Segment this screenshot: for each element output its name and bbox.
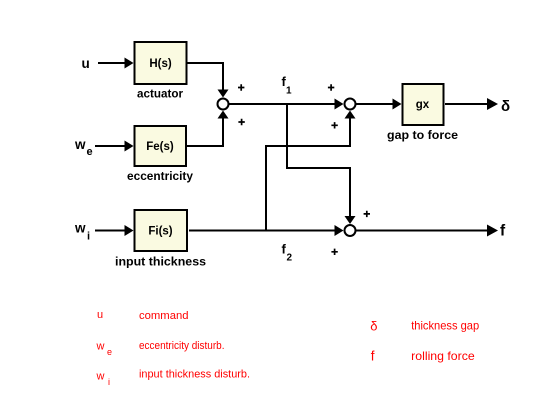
svg-text:w: w — [74, 137, 86, 152]
svg-text:δ: δ — [370, 319, 377, 334]
svg-text:eccentricity: eccentricity — [127, 171, 194, 183]
svg-text:2: 2 — [287, 253, 293, 264]
svg-text:u: u — [97, 309, 103, 321]
svg-text:gap to force: gap to force — [387, 130, 458, 142]
svg-text:i: i — [87, 231, 90, 243]
svg-text:i: i — [108, 377, 110, 387]
svg-text:command: command — [139, 310, 189, 322]
svg-text:δ: δ — [501, 98, 510, 115]
svg-text:eccentricity disturb.: eccentricity disturb. — [139, 340, 225, 352]
svg-text:1: 1 — [286, 86, 292, 97]
svg-text:w: w — [96, 341, 105, 353]
svg-text:e: e — [87, 146, 93, 158]
svg-text:thickness gap: thickness gap — [411, 319, 479, 333]
svg-text:H(s): H(s) — [149, 58, 172, 70]
svg-text:actuator: actuator — [137, 89, 184, 101]
svg-text:f: f — [500, 223, 506, 240]
svg-text:e: e — [107, 347, 112, 357]
svg-text:Fe(s): Fe(s) — [146, 141, 174, 153]
svg-text:u: u — [82, 56, 90, 71]
svg-text:w: w — [96, 370, 105, 382]
svg-text:rolling force: rolling force — [411, 349, 475, 363]
svg-text:w: w — [74, 221, 86, 236]
svg-text:gx: gx — [416, 99, 430, 111]
svg-text:input thickness: input thickness — [115, 257, 206, 269]
svg-text:Fi(s): Fi(s) — [148, 226, 172, 238]
svg-text:input thickness disturb.: input thickness disturb. — [139, 369, 250, 381]
svg-text:f: f — [371, 348, 375, 363]
